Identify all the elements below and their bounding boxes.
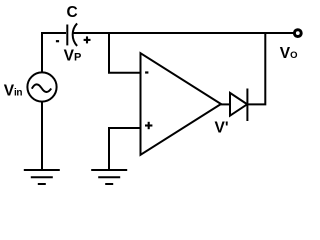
label - op-amp inverting input bbox=[145, 71, 148, 73]
svg-text:V': V' bbox=[215, 119, 229, 136]
label - capacitor negative polarity bbox=[56, 40, 59, 42]
ground GND1 bbox=[24, 170, 60, 184]
svg-text:VO: VO bbox=[280, 45, 298, 62]
ground GND2 bbox=[91, 170, 127, 184]
wire top rail right segment (capacitor to output terminal) bbox=[73, 32, 294, 34]
output terminal circle bbox=[294, 30, 301, 37]
label + op-amp non-inverting input bbox=[145, 122, 152, 129]
wire top rail left segment (source to capacitor) bbox=[42, 33, 66, 73]
svg-text:Vin: Vin bbox=[4, 82, 23, 99]
voltage source Vin circle bbox=[27, 72, 56, 101]
label + capacitor positive polarity bbox=[84, 36, 91, 43]
wire op-amp output to diode bbox=[220, 103, 230, 105]
capacitor C curved plate bbox=[73, 23, 77, 46]
wire inverting input drop bbox=[109, 33, 141, 73]
diode D1 triangle bbox=[230, 93, 247, 116]
diode D1 cathode bar bbox=[246, 89, 248, 122]
op-amp U1 bbox=[141, 53, 222, 155]
voltage source sine wave bbox=[32, 84, 51, 92]
wire diode to feedback node bbox=[247, 33, 265, 104]
wire source to ground bbox=[41, 102, 43, 170]
svg-text:VP: VP bbox=[64, 47, 82, 64]
wire non-inverting input to ground bbox=[109, 128, 141, 170]
capacitor C left plate bbox=[66, 25, 68, 46]
svg-text:C: C bbox=[67, 4, 78, 21]
